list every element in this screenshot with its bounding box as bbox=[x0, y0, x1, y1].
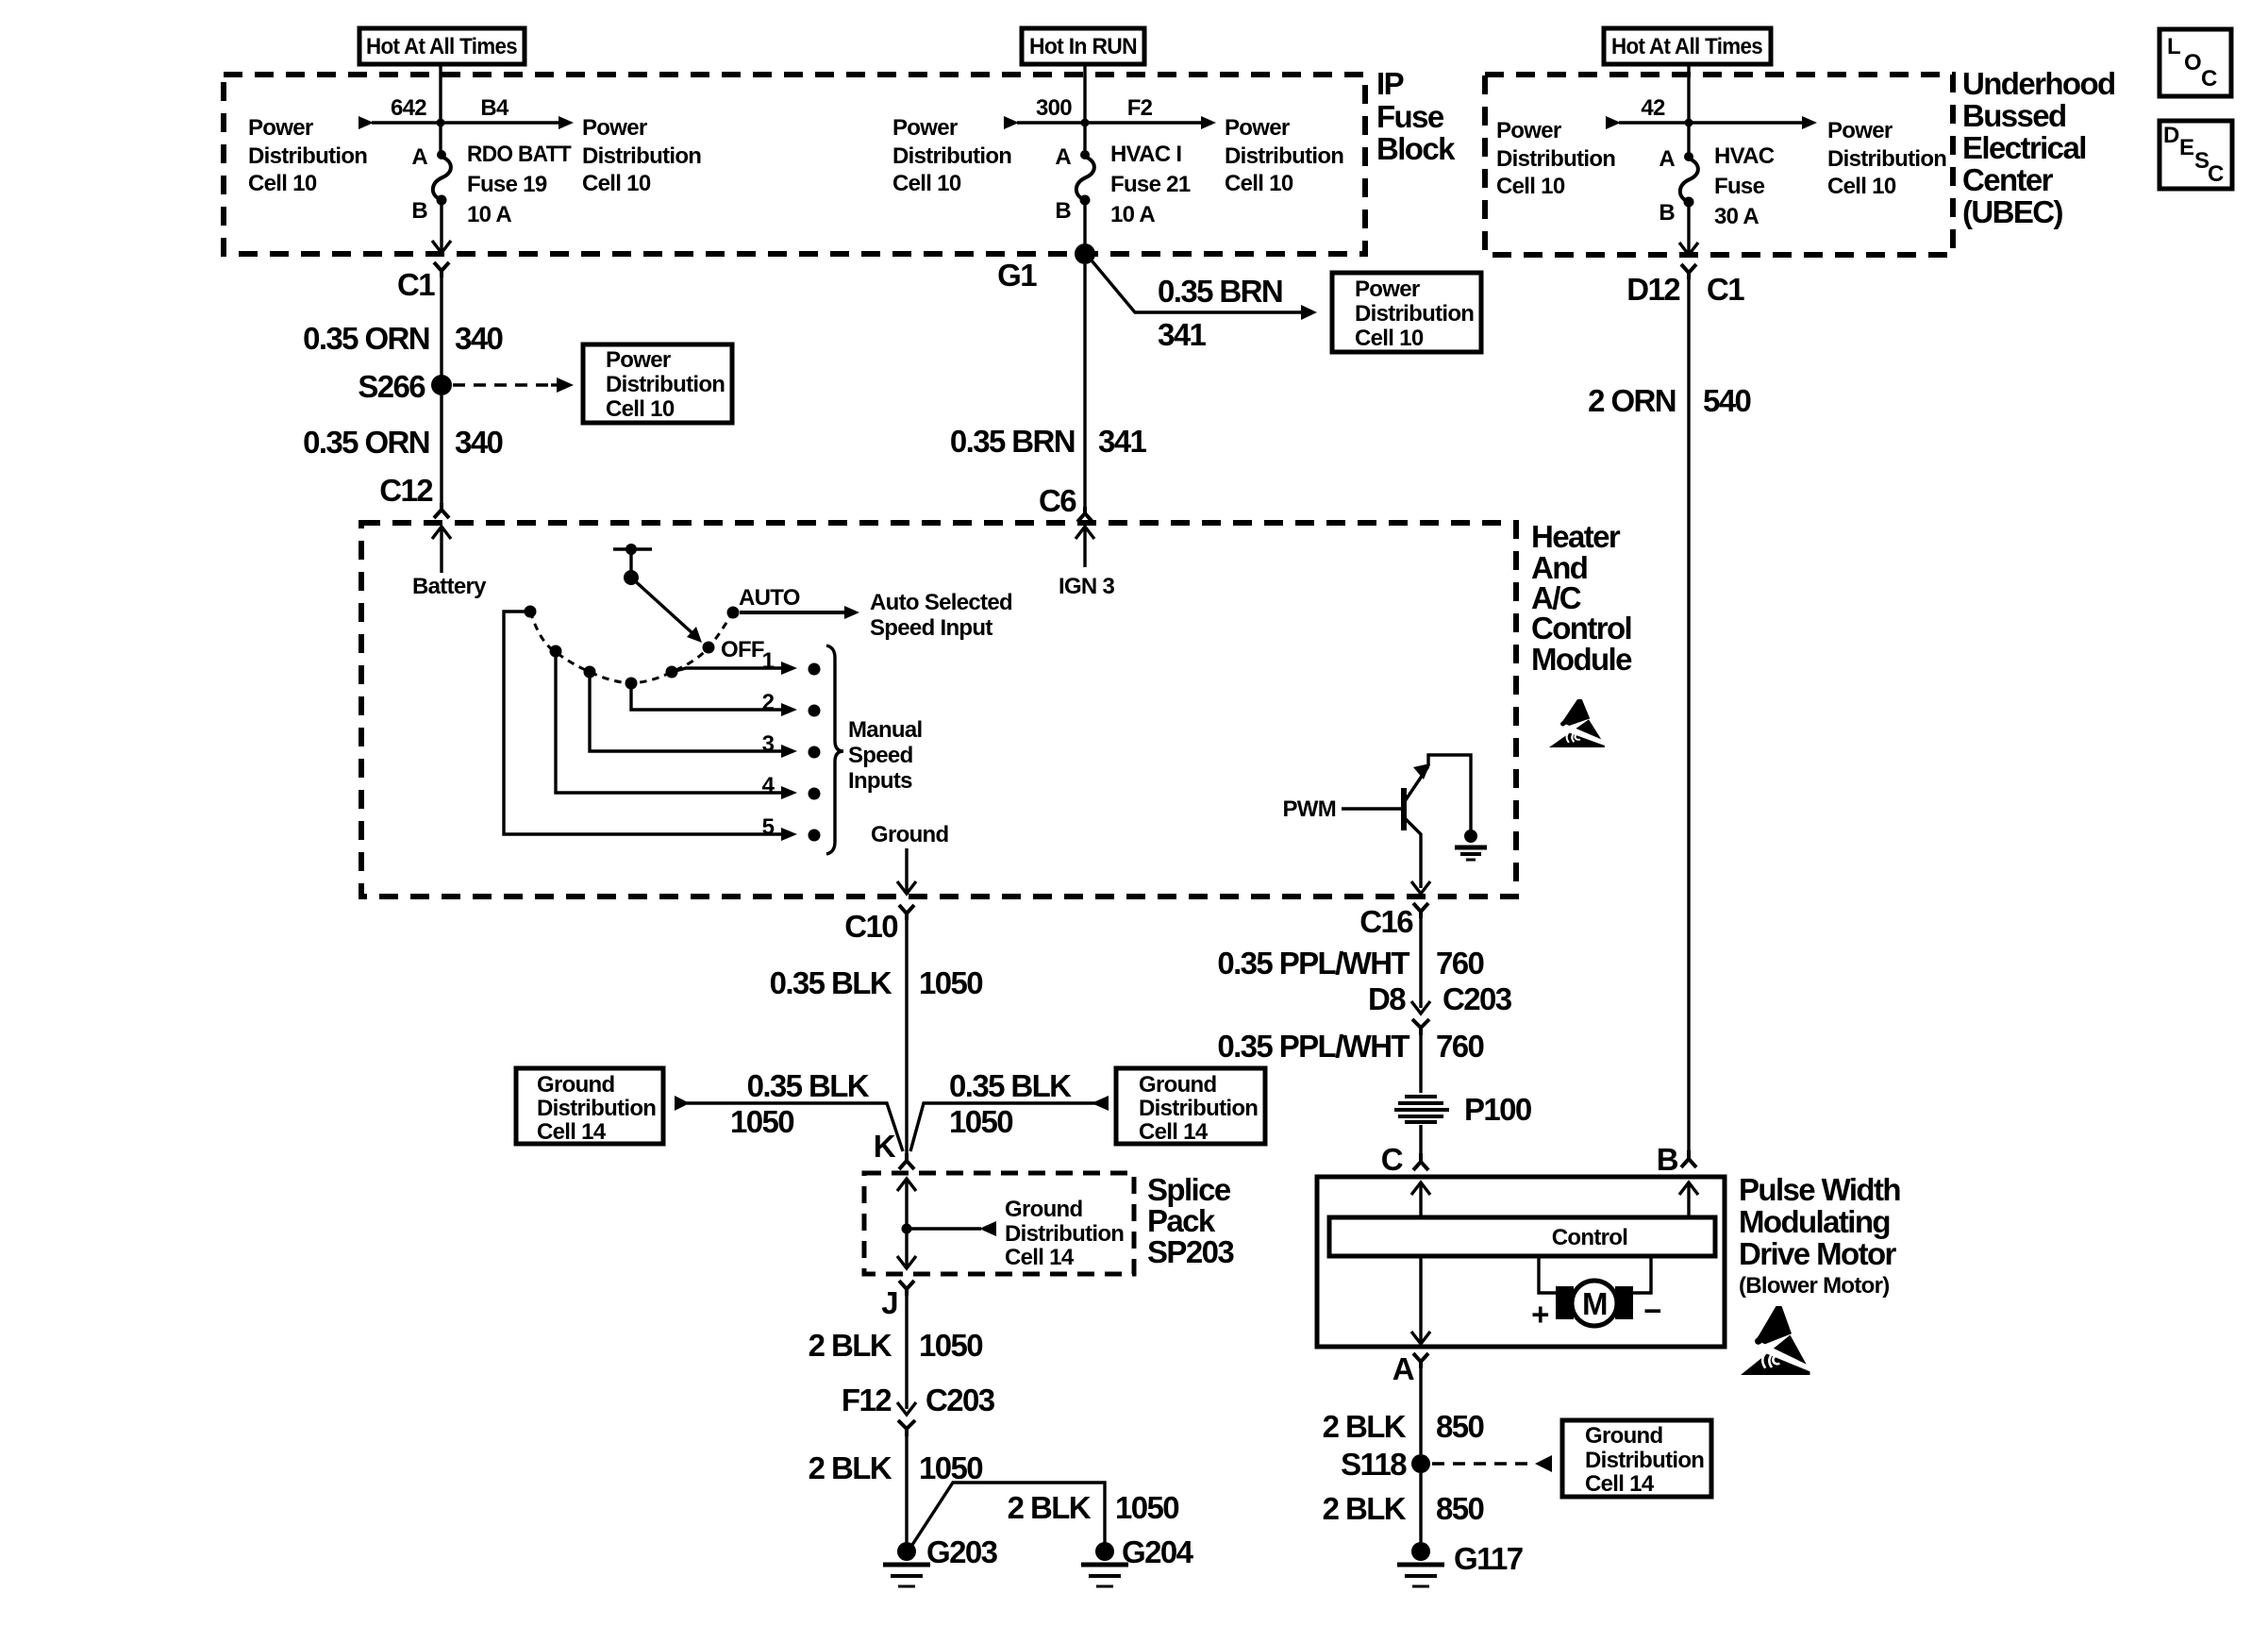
wire S118 to G117, 2 BLK 850 bbox=[1323, 1473, 1484, 1544]
svg-text:B: B bbox=[1055, 198, 1071, 224]
svg-text:Power: Power bbox=[892, 115, 958, 141]
Control bar bbox=[1329, 1217, 1715, 1256]
svg-text:Ground: Ground bbox=[537, 1072, 614, 1098]
dashed reference from S118 to Ground Distribution bbox=[1432, 1455, 1552, 1472]
ESD symbol (blower motor) bbox=[1741, 1306, 1810, 1375]
Ground Distribution Cell 14 reference box (left of K) bbox=[516, 1068, 663, 1145]
svg-text:(Blower Motor): (Blower Motor) bbox=[1739, 1273, 1890, 1299]
Power Distribution Cell 10 (right of fuse 19) bbox=[582, 115, 701, 196]
IP Fuse Block label bbox=[1376, 66, 1456, 166]
switch contact 3 bbox=[584, 666, 596, 679]
transistor ground bbox=[1455, 830, 1487, 860]
connector J bbox=[881, 1281, 914, 1320]
svg-text:300: 300 bbox=[1036, 95, 1072, 121]
svg-text:2 BLK: 2 BLK bbox=[1323, 1409, 1407, 1444]
svg-text:C203: C203 bbox=[926, 1383, 995, 1417]
svg-text:Ground: Ground bbox=[1585, 1423, 1662, 1449]
svg-text:Distribution: Distribution bbox=[1496, 146, 1615, 172]
wire C10 to K, 0.35 BLK 1050 bbox=[770, 920, 983, 1153]
connector C16 bbox=[1359, 903, 1428, 939]
svg-text:D12: D12 bbox=[1626, 272, 1680, 307]
svg-text:Power: Power bbox=[1827, 118, 1893, 143]
svg-text:Power: Power bbox=[1496, 118, 1561, 143]
svg-text:0.35 BLK: 0.35 BLK bbox=[770, 965, 892, 1000]
connector K into splice pack bbox=[874, 1129, 914, 1169]
svg-text:540: 540 bbox=[1703, 383, 1751, 418]
svg-text:Distribution: Distribution bbox=[1139, 1096, 1258, 1121]
svg-text:Speed Input: Speed Input bbox=[870, 615, 992, 641]
svg-text:(UBEC): (UBEC) bbox=[1962, 194, 2062, 229]
Battery arrow into module bbox=[412, 527, 487, 599]
svg-text:B: B bbox=[411, 198, 427, 224]
Hot At All Times box (left) bbox=[359, 28, 525, 64]
wire fuse21 B to G1 bbox=[1083, 202, 1086, 254]
svg-text:340: 340 bbox=[455, 425, 503, 460]
svg-text:0.35 BLK: 0.35 BLK bbox=[949, 1068, 1072, 1103]
svg-text:A: A bbox=[1392, 1351, 1414, 1386]
node 42 junction bbox=[1685, 119, 1693, 127]
svg-text:OFF: OFF bbox=[721, 637, 764, 662]
svg-text:B4: B4 bbox=[480, 95, 509, 121]
ground G203 bbox=[883, 1534, 998, 1586]
svg-text:3: 3 bbox=[762, 731, 775, 757]
svg-text:2 BLK: 2 BLK bbox=[809, 1328, 892, 1363]
dashed reference from S266 to Power Distribution bbox=[453, 377, 574, 393]
svg-text:1050: 1050 bbox=[949, 1104, 1012, 1139]
svg-text:Inputs: Inputs bbox=[848, 768, 912, 794]
svg-text:Distribution: Distribution bbox=[1005, 1221, 1124, 1247]
svg-text:Splice: Splice bbox=[1147, 1172, 1231, 1207]
Heater And A/C Control Module label bbox=[1531, 519, 1632, 677]
svg-text:Cell 14: Cell 14 bbox=[537, 1119, 607, 1145]
wire C203 to P100, 0.35 PPL/WHT 760 bbox=[1217, 1029, 1483, 1093]
branch wire 0.35 BRN 341 to Power Distribution bbox=[1092, 260, 1317, 352]
wire 300 feed from Power Distribution bbox=[1004, 95, 1085, 129]
svg-text:Control: Control bbox=[1552, 1225, 1627, 1250]
grommet P100 bbox=[1394, 1092, 1531, 1127]
svg-text:P100: P100 bbox=[1464, 1092, 1531, 1127]
svg-text:850: 850 bbox=[1436, 1409, 1484, 1444]
speed 2 wire bbox=[631, 683, 821, 717]
connector C12 bbox=[379, 473, 449, 518]
svg-text:42: 42 bbox=[1641, 95, 1665, 121]
svg-text:2 ORN: 2 ORN bbox=[1588, 383, 1676, 418]
switch contact 2 bbox=[625, 678, 638, 690]
svg-text:M: M bbox=[1582, 1286, 1607, 1321]
node 642/B4 junction bbox=[437, 119, 445, 127]
wire C1 to S266, 0.35 ORN 340 bbox=[303, 277, 502, 376]
svg-text:L: L bbox=[2167, 34, 2180, 59]
svg-text:Bussed: Bussed bbox=[1962, 98, 2066, 133]
wire left Ground Distribution to K, 0.35 BLK 1050 bbox=[675, 1068, 903, 1151]
svg-text:+: + bbox=[1531, 1297, 1548, 1332]
svg-text:Fuse: Fuse bbox=[1714, 174, 1765, 199]
svg-text:A: A bbox=[1055, 144, 1071, 170]
svg-text:Cell 14: Cell 14 bbox=[1585, 1471, 1655, 1497]
Ground output of module bbox=[871, 822, 948, 894]
IGN 3 arrow into module bbox=[1059, 527, 1115, 599]
svg-text:0.35 ORN: 0.35 ORN bbox=[303, 321, 429, 356]
svg-text:Hot At All Times: Hot At All Times bbox=[366, 34, 517, 59]
HVAC Fuse 30A bbox=[1659, 143, 1774, 229]
DESC legend box bbox=[2160, 121, 2232, 189]
blower switch pivot bar bbox=[613, 544, 652, 585]
switch contact 1 bbox=[666, 666, 678, 679]
svg-text:1050: 1050 bbox=[919, 1450, 982, 1485]
svg-text:C: C bbox=[2208, 161, 2224, 187]
wire A to S118, 2 BLK 850 bbox=[1323, 1368, 1484, 1454]
svg-text:Module: Module bbox=[1531, 642, 1632, 677]
wire from Hot At All Times into fuse block bbox=[439, 64, 442, 155]
arrow out of UBEC bbox=[1679, 243, 1698, 255]
svg-text:Distribution: Distribution bbox=[1225, 143, 1343, 169]
svg-text:1050: 1050 bbox=[919, 965, 982, 1000]
svg-text:S118: S118 bbox=[1341, 1447, 1407, 1482]
svg-text:10 A: 10 A bbox=[467, 202, 511, 227]
Splice Pack SP203 dashed box bbox=[864, 1173, 1134, 1274]
svg-text:760: 760 bbox=[1436, 1029, 1484, 1064]
splice G1 on fuse block boundary bbox=[997, 243, 1095, 293]
UBEC dashed box bbox=[1485, 75, 1953, 255]
wire D12/C1 to blower motor B, 2 ORN 540 bbox=[1588, 279, 1750, 1150]
svg-text:2: 2 bbox=[762, 690, 775, 715]
speed 3 wire bbox=[590, 672, 821, 759]
svg-text:0.35 BRN: 0.35 BRN bbox=[1158, 274, 1282, 309]
wire to Power Distribution (right of HVAC fuse) bbox=[1689, 116, 1817, 129]
connector C6 bbox=[1039, 483, 1092, 522]
switch contact OFF bbox=[703, 637, 764, 662]
splice pack ground distribution branch bbox=[907, 1197, 1124, 1270]
Pulse Width Modulating Drive Motor label bbox=[1739, 1172, 1900, 1299]
ground G204 bbox=[1081, 1534, 1194, 1586]
speed 4 wire bbox=[556, 651, 821, 800]
speed 5 wire bbox=[504, 612, 821, 842]
svg-text:1050: 1050 bbox=[919, 1328, 982, 1363]
svg-text:Cell 10: Cell 10 bbox=[1496, 174, 1565, 199]
svg-text:642: 642 bbox=[391, 95, 426, 121]
svg-text:Cell 10: Cell 10 bbox=[1355, 326, 1424, 351]
connector C10 bbox=[844, 905, 914, 944]
motor A output arrow inside box bbox=[1411, 1256, 1430, 1344]
arrow into splice pack bbox=[897, 1179, 916, 1229]
svg-text:Manual: Manual bbox=[848, 717, 922, 743]
arrow out of splice pack bbox=[897, 1229, 916, 1268]
splice S118 bbox=[1341, 1447, 1430, 1482]
svg-text:Control: Control bbox=[1531, 611, 1631, 645]
svg-text:IP: IP bbox=[1376, 66, 1404, 101]
Hot At All Times box (UBEC) bbox=[1604, 28, 1771, 64]
svg-text:O: O bbox=[2184, 50, 2201, 75]
svg-text:10 A: 10 A bbox=[1110, 202, 1155, 227]
svg-text:−: − bbox=[1643, 1293, 1660, 1328]
switch contact 5 bbox=[525, 606, 537, 618]
svg-text:Ground: Ground bbox=[1139, 1072, 1216, 1098]
svg-text:C1: C1 bbox=[1707, 272, 1744, 307]
svg-text:Modulating: Modulating bbox=[1739, 1204, 1890, 1239]
svg-text:Auto Selected: Auto Selected bbox=[870, 590, 1012, 615]
wire fuse19 B to C1 bbox=[440, 202, 442, 251]
svg-text:2 BLK: 2 BLK bbox=[809, 1450, 892, 1485]
svg-text:HVAC: HVAC bbox=[1714, 143, 1775, 169]
Pulse Width Modulating Drive Motor box bbox=[1317, 1177, 1725, 1347]
svg-text:C: C bbox=[1381, 1142, 1403, 1177]
blower switch wiper arm arrow bbox=[631, 578, 702, 643]
manual speed inputs brace bbox=[826, 645, 843, 854]
wire S266 to C12, 0.35 ORN 340 bbox=[303, 395, 502, 503]
svg-text:Pack: Pack bbox=[1147, 1203, 1216, 1238]
arrow out of fuse block at C1 bbox=[432, 241, 451, 253]
Power Distribution Cell 10 (left of fuse 21) bbox=[892, 115, 1011, 196]
svg-text:C: C bbox=[2201, 66, 2217, 92]
svg-text:Distribution: Distribution bbox=[1827, 146, 1946, 172]
svg-text:SP203: SP203 bbox=[1147, 1234, 1234, 1269]
Power Distribution Cell 10 (right of HVAC fuse) bbox=[1827, 118, 1946, 199]
svg-text:Cell 14: Cell 14 bbox=[1139, 1119, 1209, 1145]
Underhood Bussed Electrical Center (UBEC) label bbox=[1962, 66, 2115, 229]
svg-text:0.35 ORN: 0.35 ORN bbox=[303, 425, 429, 460]
svg-text:2 BLK: 2 BLK bbox=[1323, 1491, 1407, 1526]
svg-text:0.35 PPL/WHT: 0.35 PPL/WHT bbox=[1217, 1029, 1409, 1064]
svg-text:Distribution: Distribution bbox=[606, 372, 725, 397]
svg-text:Ground: Ground bbox=[871, 822, 948, 847]
svg-text:0.35 BRN: 0.35 BRN bbox=[950, 424, 1075, 459]
svg-text:Distribution: Distribution bbox=[537, 1096, 656, 1121]
svg-text:F2: F2 bbox=[1127, 95, 1153, 121]
wire P100 to motor pin C bbox=[1419, 1125, 1422, 1153]
svg-text:341: 341 bbox=[1158, 317, 1207, 352]
wire HVAC fuse B out of UBEC bbox=[1687, 204, 1690, 253]
motor C feed arrow inside box bbox=[1411, 1182, 1430, 1217]
svg-text:C203: C203 bbox=[1443, 981, 1512, 1016]
wire J to C203, 2 BLK 1050 bbox=[809, 1296, 983, 1409]
speed 1 wire bbox=[672, 648, 821, 676]
svg-text:Block: Block bbox=[1376, 131, 1456, 166]
svg-text:Center: Center bbox=[1962, 162, 2054, 197]
wire C16 to C203, 0.35 PPL/WHT 760 bbox=[1217, 918, 1483, 1008]
fuse F19 RDO BATT 10A bbox=[411, 142, 572, 227]
svg-text:760: 760 bbox=[1436, 946, 1484, 981]
splice S266 bbox=[358, 369, 452, 404]
svg-text:Pulse Width: Pulse Width bbox=[1739, 1172, 1900, 1207]
svg-text:C6: C6 bbox=[1039, 483, 1076, 518]
svg-text:E: E bbox=[2179, 135, 2194, 160]
fuse F21 HVAC I 10A bbox=[1055, 142, 1190, 227]
connector pin C of blower motor bbox=[1381, 1142, 1428, 1177]
svg-text:Fuse 19: Fuse 19 bbox=[467, 172, 547, 197]
in-line connector F12 C203 bbox=[842, 1383, 995, 1436]
svg-text:Fuse: Fuse bbox=[1376, 99, 1444, 134]
svg-text:Battery: Battery bbox=[412, 574, 487, 599]
Ground Distribution Cell 14 reference box (S118) bbox=[1562, 1420, 1711, 1497]
svg-text:J: J bbox=[881, 1285, 897, 1320]
Power Distribution Cell 10 (left of fuse 19) bbox=[248, 115, 367, 196]
Heater And A/C Control Module dashed box bbox=[361, 523, 1516, 897]
svg-text:Fuse 21: Fuse 21 bbox=[1110, 172, 1191, 197]
svg-text:2 BLK: 2 BLK bbox=[1008, 1490, 1092, 1525]
svg-text:340: 340 bbox=[455, 321, 503, 356]
wire from Hot At All Times into UBEC bbox=[1687, 64, 1690, 155]
branch wire to G204, 2 BLK 1050 bbox=[912, 1483, 1178, 1545]
svg-text:B: B bbox=[1659, 200, 1675, 226]
svg-text:Power: Power bbox=[606, 347, 671, 373]
Power Distribution Cell 10 reference box (G1) bbox=[1332, 273, 1481, 352]
wire 642 feed from Power Distribution bbox=[359, 95, 441, 129]
wire G1 to C6, 0.35 BRN 341 bbox=[950, 264, 1147, 507]
svg-text:Heater: Heater bbox=[1531, 519, 1621, 554]
svg-text:850: 850 bbox=[1436, 1491, 1484, 1526]
svg-text:30 A: 30 A bbox=[1714, 204, 1759, 229]
svg-text:Cell 10: Cell 10 bbox=[1827, 174, 1896, 199]
svg-text:Underhood: Underhood bbox=[1962, 66, 2115, 101]
svg-text:RDO BATT: RDO BATT bbox=[467, 142, 572, 167]
svg-text:C1: C1 bbox=[397, 267, 435, 302]
wire AUTO to Auto Selected Speed Input bbox=[740, 590, 1012, 641]
Power Distribution Cell 10 reference box (S266) bbox=[583, 344, 732, 423]
svg-text:1050: 1050 bbox=[1115, 1490, 1178, 1525]
switch contact 4 bbox=[550, 645, 562, 658]
svg-text:4: 4 bbox=[762, 773, 775, 798]
svg-text:D8: D8 bbox=[1368, 981, 1406, 1016]
motor B feed arrow inside box bbox=[1679, 1182, 1698, 1217]
wire F2 to Power Distribution bbox=[1085, 95, 1216, 129]
Splice Pack SP203 label bbox=[1147, 1172, 1234, 1269]
svg-text:G1: G1 bbox=[997, 258, 1037, 293]
Hot In RUN box bbox=[1022, 28, 1144, 64]
PWM transistor bbox=[1282, 755, 1471, 888]
svg-text:1: 1 bbox=[762, 648, 775, 674]
wire from Hot In RUN into fuse block bbox=[1083, 64, 1086, 155]
svg-text:D: D bbox=[2163, 123, 2179, 148]
connector pin B of blower motor bbox=[1657, 1142, 1696, 1177]
connector D12 C1 bbox=[1626, 264, 1744, 307]
Power Distribution Cell 10 (right of fuse 21) bbox=[1225, 115, 1343, 196]
svg-text:Distribution: Distribution bbox=[1585, 1448, 1704, 1473]
svg-text:Cell 10: Cell 10 bbox=[582, 171, 651, 196]
svg-text:Distribution: Distribution bbox=[892, 143, 1011, 169]
svg-text:K: K bbox=[874, 1129, 896, 1164]
svg-text:0.35 PPL/WHT: 0.35 PPL/WHT bbox=[1217, 946, 1409, 981]
svg-text:Cell 10: Cell 10 bbox=[606, 396, 675, 422]
svg-text:G117: G117 bbox=[1454, 1541, 1523, 1576]
svg-text:Power: Power bbox=[1355, 277, 1420, 302]
svg-text:1050: 1050 bbox=[730, 1104, 793, 1139]
svg-text:Speed: Speed bbox=[848, 743, 913, 768]
svg-text:F12: F12 bbox=[842, 1383, 892, 1417]
Manual Speed Inputs label bbox=[848, 717, 922, 794]
svg-text:PWM: PWM bbox=[1282, 796, 1336, 822]
arrow out of module at C16 bbox=[1411, 881, 1430, 894]
ESD symbol (control module) bbox=[1549, 699, 1605, 747]
svg-text:0.35 BLK: 0.35 BLK bbox=[747, 1068, 870, 1103]
wire B4 to Power Distribution bbox=[441, 95, 574, 129]
svg-text:C12: C12 bbox=[379, 473, 433, 508]
svg-text:Cell 10: Cell 10 bbox=[1225, 171, 1293, 196]
svg-text:Power: Power bbox=[1225, 115, 1290, 141]
motor M with brushes bbox=[1531, 1256, 1660, 1332]
splice pack internal node bbox=[902, 1224, 912, 1234]
svg-text:G203: G203 bbox=[926, 1534, 998, 1569]
svg-text:Hot In RUN: Hot In RUN bbox=[1029, 34, 1137, 59]
svg-text:Cell 10: Cell 10 bbox=[892, 171, 961, 196]
in-line connector D8 C203 bbox=[1368, 981, 1512, 1035]
LOC legend box bbox=[2160, 29, 2231, 96]
svg-text:C16: C16 bbox=[1359, 904, 1413, 939]
svg-text:Distribution: Distribution bbox=[248, 143, 367, 169]
wire right Ground Distribution to K, 0.35 BLK 1050 bbox=[910, 1068, 1109, 1151]
wire 42 feed from Power Distribution bbox=[1606, 95, 1689, 129]
node 300/F2 junction bbox=[1081, 119, 1090, 127]
svg-text:Power: Power bbox=[248, 115, 313, 141]
svg-text:AUTO: AUTO bbox=[739, 585, 800, 611]
svg-text:5: 5 bbox=[762, 814, 775, 840]
svg-text:Cell 14: Cell 14 bbox=[1005, 1245, 1075, 1270]
Power Distribution Cell 10 (left of HVAC fuse) bbox=[1496, 118, 1615, 199]
svg-text:C10: C10 bbox=[844, 909, 897, 944]
svg-text:341: 341 bbox=[1098, 424, 1147, 459]
wire C203 to G203, 2 BLK 1050 bbox=[809, 1436, 983, 1544]
IP fuse block dashed box bbox=[224, 75, 1365, 254]
svg-text:IGN 3: IGN 3 bbox=[1059, 574, 1115, 599]
svg-text:Distribution: Distribution bbox=[582, 143, 701, 169]
svg-text:G204: G204 bbox=[1122, 1534, 1194, 1569]
svg-text:Cell 10: Cell 10 bbox=[248, 171, 317, 196]
blower switch contact arc bbox=[530, 612, 733, 683]
Ground Distribution Cell 14 reference box (right of K) bbox=[1116, 1068, 1265, 1145]
switch contact AUTO bbox=[727, 585, 800, 619]
svg-text:Drive Motor: Drive Motor bbox=[1739, 1236, 1897, 1271]
svg-text:Electrical: Electrical bbox=[1962, 130, 2086, 165]
svg-text:A: A bbox=[411, 144, 427, 170]
svg-text:Hot At All Times: Hot At All Times bbox=[1611, 34, 1762, 59]
svg-text:Distribution: Distribution bbox=[1355, 301, 1474, 327]
svg-text:S266: S266 bbox=[358, 369, 425, 404]
connector C1 bbox=[397, 262, 449, 302]
svg-text:Power: Power bbox=[582, 115, 647, 141]
ground G117 bbox=[1397, 1541, 1523, 1586]
connector pin A of blower motor bbox=[1392, 1351, 1428, 1386]
svg-text:HVAC I: HVAC I bbox=[1110, 142, 1181, 167]
svg-text:A: A bbox=[1659, 146, 1675, 172]
svg-text:Ground: Ground bbox=[1005, 1197, 1082, 1222]
svg-text:B: B bbox=[1657, 1142, 1678, 1177]
